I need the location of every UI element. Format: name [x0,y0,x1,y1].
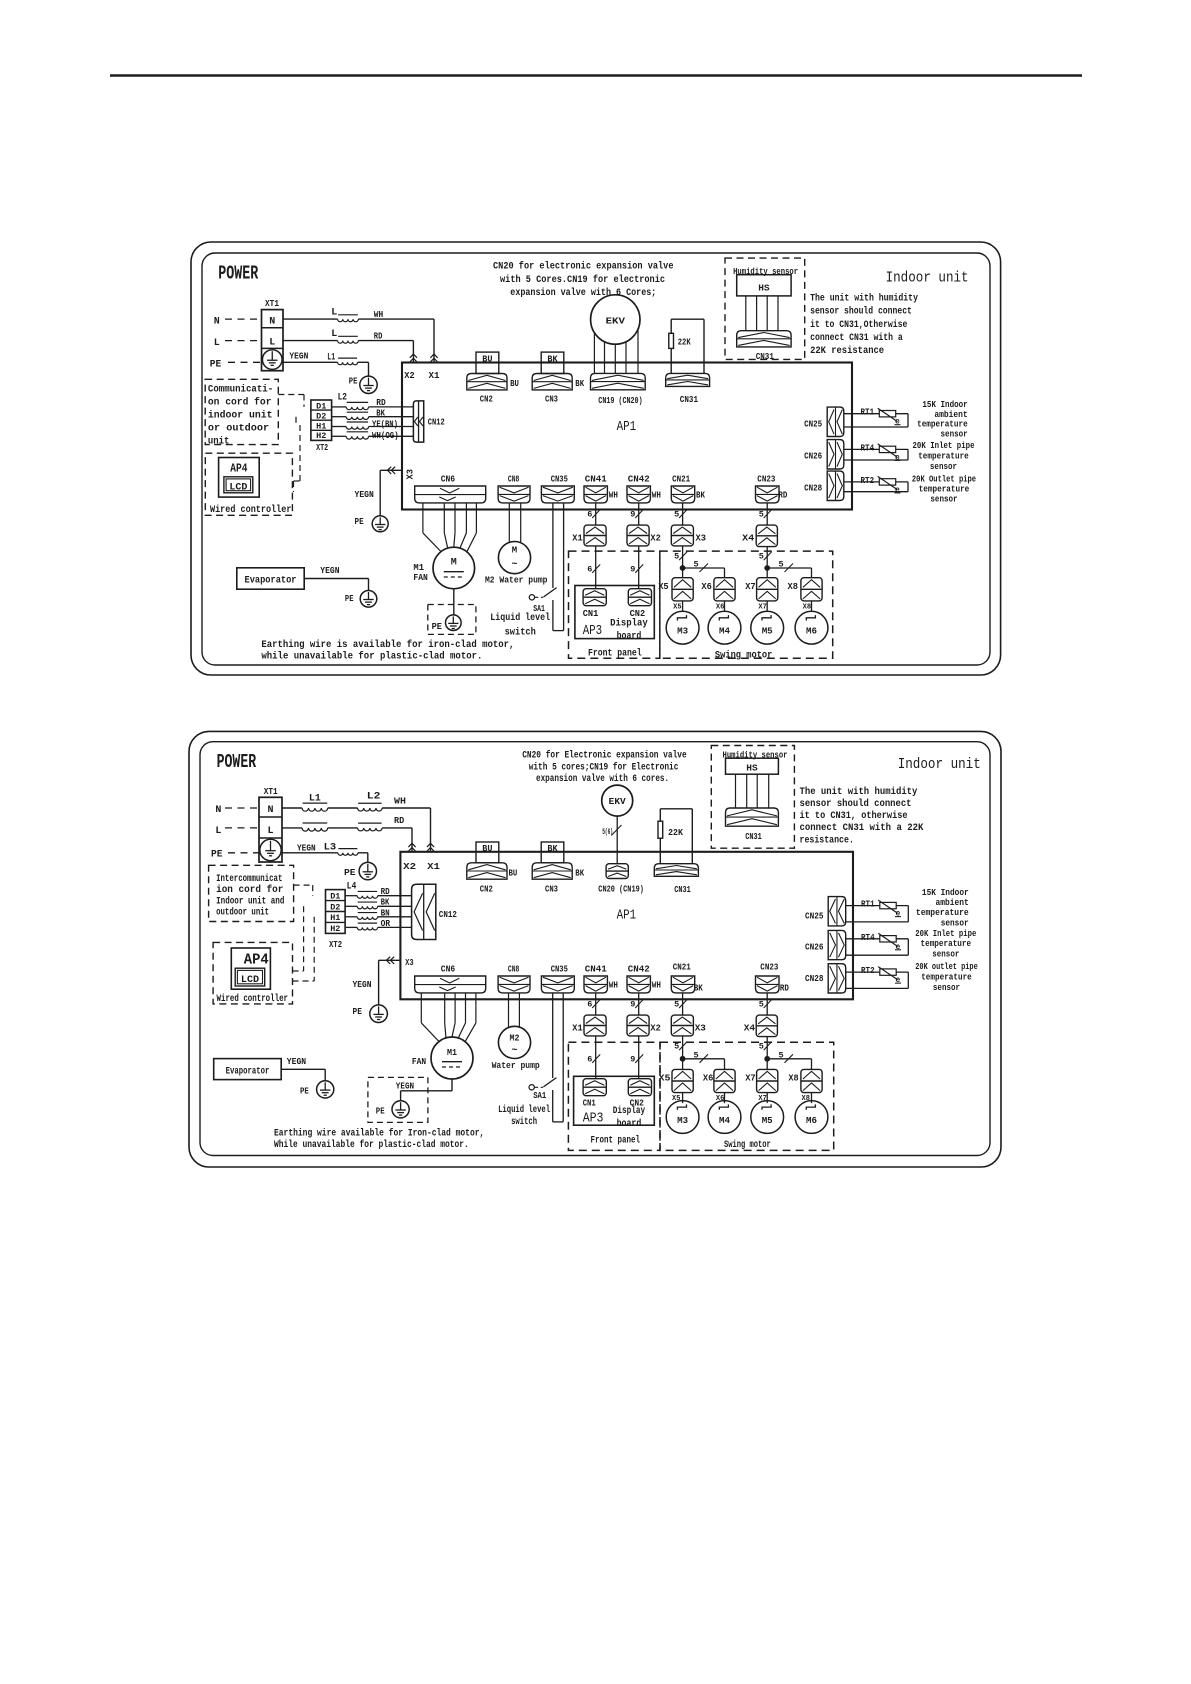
svg-text:e: e [896,976,901,985]
svg-text:6: 6 [587,1000,592,1010]
svg-text:XT1: XT1 [264,786,278,797]
svg-text:RD: RD [376,398,386,408]
svg-text:5: 5 [694,1050,699,1060]
svg-text:sensor should connect: sensor should connect [810,306,912,318]
svg-text:with 5 Cores.CN19 for electron: with 5 Cores.CN19 for electronic [500,274,665,286]
svg-text:Indoor unit: Indoor unit [886,270,969,287]
svg-text:WH: WH [394,796,406,807]
svg-text:L2: L2 [338,393,347,404]
svg-text:while unavailable for plastic-: while unavailable for plastic-clad motor… [261,651,482,663]
svg-text:M3: M3 [677,626,688,637]
svg-text:M3: M3 [677,1115,688,1126]
svg-text:CN1: CN1 [583,1098,596,1109]
svg-text:L: L [214,338,220,349]
svg-text:PE: PE [211,850,223,861]
svg-text:H2: H2 [316,431,326,441]
svg-text:Evaporator: Evaporator [245,575,297,587]
svg-text:e: e [895,486,900,495]
svg-text:CN2: CN2 [480,884,493,895]
svg-text:BK: BK [547,353,557,364]
svg-text:X8: X8 [803,603,812,611]
svg-text:22K resistance: 22K resistance [810,345,884,357]
svg-text:The unit with humidity: The unit with humidity [810,293,918,305]
svg-text:X3: X3 [696,533,707,544]
svg-text:RT1: RT1 [861,899,875,910]
svg-text:PE: PE [300,1085,309,1096]
svg-text:X5: X5 [658,581,669,592]
svg-text:X2: X2 [650,1023,661,1034]
svg-text:HS: HS [746,762,758,773]
svg-text:Indoor unit and: Indoor unit and [216,895,284,907]
svg-text:CN31: CN31 [756,351,774,362]
svg-text:D1: D1 [316,402,326,412]
svg-text:CN41: CN41 [585,963,607,974]
svg-text:Indoor unit: Indoor unit [898,756,981,773]
svg-text:X4: X4 [742,533,754,544]
svg-text:OR: OR [381,919,391,929]
svg-text:CN8: CN8 [508,473,520,484]
svg-text:CN12: CN12 [439,909,457,920]
svg-text:AP1: AP1 [617,419,637,435]
svg-text:YEGN: YEGN [320,565,339,576]
svg-text:switch: switch [505,626,536,638]
svg-text:POWER: POWER [217,751,257,773]
svg-text:YEGN: YEGN [355,489,375,500]
svg-text:BN: BN [381,908,390,918]
svg-text:N: N [215,805,221,816]
svg-text:BK: BK [575,868,584,879]
svg-text:switch: switch [511,1116,537,1128]
svg-text:6: 6 [587,510,592,520]
svg-text:e: e [896,943,901,952]
svg-text:FAN: FAN [412,1056,426,1067]
svg-text:L4: L4 [347,882,357,893]
svg-text:5: 5 [759,1000,764,1010]
svg-text:PE: PE [353,1006,363,1017]
svg-text:Liquid level: Liquid level [490,612,550,624]
svg-text:5: 5 [779,1050,784,1060]
svg-text:CN26: CN26 [804,451,822,462]
svg-text:Intercommunicat: Intercommunicat [216,873,282,885]
svg-text:ion cord for: ion cord for [216,884,283,896]
svg-text:M1: M1 [447,1047,457,1058]
svg-text:XT2: XT2 [316,442,328,453]
svg-text:CN42: CN42 [628,473,650,484]
svg-text:CN1: CN1 [583,608,599,619]
svg-text:X3: X3 [405,957,414,968]
svg-text:22K: 22K [678,336,691,347]
svg-text:e: e [895,418,900,427]
svg-text:X1: X1 [572,1023,583,1034]
svg-text:RD: RD [778,489,787,500]
svg-text:CN25: CN25 [804,418,822,429]
svg-text:X5: X5 [673,603,682,611]
svg-text:9: 9 [630,1000,635,1010]
svg-text:5: 5 [759,510,764,520]
svg-text:resistance.: resistance. [800,834,854,846]
svg-text:WH: WH [652,979,661,990]
svg-text:X5: X5 [672,1095,680,1103]
svg-text:9: 9 [630,1054,635,1064]
svg-text:RD: RD [381,887,391,897]
svg-text:BU: BU [482,843,492,854]
svg-text:X5: X5 [659,1073,671,1084]
svg-text:CN6: CN6 [441,473,456,484]
svg-text:5: 5 [674,1000,679,1010]
svg-text:RT1: RT1 [861,407,875,418]
svg-text:L2: L2 [367,792,381,803]
svg-text:5: 5 [779,560,784,570]
svg-text:L1: L1 [309,793,321,804]
svg-text:9: 9 [630,564,635,574]
svg-text:20K outlet pipe: 20K outlet pipe [915,961,978,972]
svg-text:BK: BK [381,898,390,908]
svg-text:XT2: XT2 [329,939,342,950]
svg-text:Display: Display [613,1105,646,1117]
svg-text:X7: X7 [745,1073,756,1084]
svg-text:CN21: CN21 [672,473,690,484]
svg-text:YEGN: YEGN [287,1056,307,1067]
svg-text:Humidity sensor: Humidity sensor [733,267,798,277]
svg-text:N: N [214,317,220,328]
svg-text:it to CN31,Otherwise: it to CN31,Otherwise [810,319,907,331]
svg-text:X6: X6 [701,581,712,592]
svg-text:CN28: CN28 [804,482,822,493]
svg-text:BU: BU [482,353,492,364]
svg-text:Evaporator: Evaporator [226,1066,270,1078]
svg-text:H1: H1 [316,421,326,431]
svg-text:~: ~ [511,560,517,571]
svg-text:or outdoor: or outdoor [208,423,269,435]
svg-text:expansion valve with 6 Cores;: expansion valve with 6 Cores; [510,287,656,299]
svg-text:N: N [269,317,275,328]
svg-text:X7: X7 [745,581,756,592]
svg-text:PE: PE [376,1106,385,1117]
svg-text:AP3: AP3 [583,623,603,639]
svg-text:D1: D1 [330,892,340,902]
svg-text:RD: RD [780,983,789,994]
svg-text:X2: X2 [403,861,416,872]
svg-text:sensor: sensor [930,494,957,505]
svg-text:L3: L3 [324,843,337,854]
svg-text:CN12: CN12 [428,417,445,428]
svg-text:WH(OG): WH(OG) [372,431,399,441]
svg-text:D2: D2 [330,902,340,912]
svg-text:L: L [269,338,275,349]
svg-text:X8: X8 [802,1095,810,1103]
svg-text:sensor should connect: sensor should connect [800,798,912,810]
svg-text:FAN: FAN [413,572,428,583]
svg-text:with 5 cores;CN19 for Electron: with 5 cores;CN19 for Electronic [529,762,679,774]
svg-text:BK: BK [547,843,557,854]
svg-text:X1: X1 [429,370,440,381]
svg-text:connect CN31 with a: connect CN31 with a [810,332,903,344]
svg-text:BK: BK [575,378,584,389]
svg-text:CN8: CN8 [508,963,520,974]
svg-text:X1: X1 [427,861,440,872]
svg-text:Liquid level: Liquid level [498,1104,550,1116]
svg-text:BU: BU [510,378,519,389]
svg-text:The unit with humidity: The unit with humidity [800,786,918,798]
svg-text:sensor: sensor [930,461,957,472]
svg-text:CN21: CN21 [673,962,691,973]
svg-text:CN35: CN35 [551,473,568,484]
svg-text:20K Inlet pipe: 20K Inlet pipe [913,440,975,451]
svg-text:CN41: CN41 [585,473,607,484]
svg-text:Communicati-: Communicati- [208,384,273,396]
svg-text:CN3: CN3 [545,394,558,405]
svg-text:M6: M6 [806,626,817,637]
svg-text:RT4: RT4 [861,932,875,943]
svg-text:X6: X6 [703,1073,714,1084]
svg-text:H1: H1 [330,913,340,923]
svg-text:WH: WH [609,489,618,500]
svg-text:PE: PE [345,593,354,604]
svg-text:5: 5 [694,560,699,570]
svg-text:RD: RD [374,331,383,342]
svg-text:M5: M5 [762,626,773,637]
svg-text:e: e [895,453,900,462]
svg-text:CN42: CN42 [628,963,650,974]
svg-text:temperature: temperature [921,971,972,982]
svg-text:5: 5 [759,1042,764,1052]
svg-text:BK: BK [376,409,385,419]
svg-text:L: L [267,826,273,837]
svg-text:M5: M5 [762,1115,773,1126]
svg-text:temperature: temperature [918,450,969,461]
svg-text:on cord for: on cord for [208,397,272,409]
svg-text:YEGN: YEGN [297,843,316,854]
svg-text:sensor: sensor [941,429,968,440]
svg-text:CN28: CN28 [805,973,824,984]
svg-text:EKV: EKV [606,315,626,326]
svg-text:CN25: CN25 [805,911,824,922]
svg-text:unit: unit [208,436,230,448]
svg-text:M: M [451,557,457,568]
svg-text:Display: Display [610,617,648,629]
svg-text:Front panel: Front panel [588,648,642,660]
svg-text:~: ~ [511,1046,517,1057]
svg-text:L: L [215,826,221,837]
svg-text:sensor: sensor [941,917,969,928]
svg-text:CN35: CN35 [551,963,568,974]
svg-text:X6: X6 [716,603,725,611]
svg-text:outdoor unit: outdoor unit [216,907,269,919]
svg-text:6: 6 [587,1054,592,1064]
svg-text:HS: HS [758,282,770,293]
svg-text:PE: PE [432,621,443,632]
svg-text:CN20 for Electronic expansion: CN20 for Electronic expansion valve [522,750,687,762]
svg-text:Swing motor: Swing motor [715,650,773,662]
svg-text:M4: M4 [719,1115,730,1126]
svg-text:5: 5 [674,510,679,520]
svg-text:CN26: CN26 [805,941,824,952]
svg-text:Earthing wire available for Ir: Earthing wire available for Iron-clad mo… [274,1128,484,1140]
svg-text:PE: PE [355,516,364,527]
svg-text:D2: D2 [316,411,326,421]
svg-text:9: 9 [630,510,635,520]
svg-text:X6: X6 [716,1095,724,1103]
svg-text:RT4: RT4 [861,442,875,453]
svg-text:XT1: XT1 [265,298,279,309]
svg-text:Wired controller: Wired controller [217,993,289,1005]
svg-text:WH: WH [374,309,384,320]
svg-text:Earthing wire is available for: Earthing wire is available for iron-clad… [261,639,514,651]
svg-text:PE: PE [344,867,356,878]
svg-text:EKV: EKV [609,797,627,807]
svg-text:CN31: CN31 [674,884,691,895]
svg-text:board: board [617,630,642,642]
svg-text:6: 6 [587,564,592,574]
svg-text:M6: M6 [806,1115,817,1126]
svg-text:5: 5 [674,552,679,562]
svg-text:RD: RD [394,815,404,826]
svg-text:X8: X8 [788,1073,799,1084]
svg-text:BU: BU [509,868,518,879]
svg-text:board: board [617,1118,642,1130]
svg-text:X8: X8 [788,581,799,592]
svg-text:X3: X3 [695,1023,706,1034]
svg-text:connect CN31 with a 22K: connect CN31 with a 22K [800,822,924,834]
svg-text:sensor: sensor [932,948,959,959]
svg-text:M2: M2 [510,1033,520,1043]
svg-text:5(6): 5(6) [602,828,613,837]
svg-text:PE: PE [210,360,222,371]
svg-text:N: N [267,805,273,816]
svg-text:22K: 22K [668,827,683,838]
svg-text:X7: X7 [758,603,767,611]
svg-text:PE: PE [349,375,358,386]
svg-text:H2: H2 [330,924,340,934]
svg-text:X2: X2 [404,370,415,381]
svg-text:5: 5 [759,552,764,562]
svg-text:BK: BK [694,983,703,994]
svg-text:M: M [512,545,517,555]
svg-text:CN31: CN31 [745,831,762,842]
svg-text:X7: X7 [758,1095,766,1103]
svg-text:CN20 (CN19): CN20 (CN19) [598,883,644,894]
svg-text:M4: M4 [719,626,730,637]
svg-text:CN6: CN6 [441,963,456,974]
svg-text:AP4: AP4 [230,462,247,475]
svg-text:X2: X2 [650,533,661,544]
svg-text:YE(BN): YE(BN) [372,420,398,430]
svg-text:POWER: POWER [218,263,258,285]
svg-text:Water pump: Water pump [492,1060,540,1071]
svg-text:indoor unit: indoor unit [208,410,273,422]
svg-text:L: L [331,308,337,319]
svg-text:CN23: CN23 [757,473,775,484]
svg-text:CN31: CN31 [680,394,698,405]
svg-text:expansion valve with 6 cores.: expansion valve with 6 cores. [536,773,669,785]
svg-text:While unavailable for plastic-: While unavailable for plastic-clad motor… [274,1139,469,1151]
svg-text:RT2: RT2 [861,965,875,976]
svg-text:YEGN: YEGN [353,979,372,990]
svg-text:WH: WH [609,979,618,990]
svg-text:it to CN31, otherwise: it to CN31, otherwise [800,810,908,822]
svg-text:AP3: AP3 [583,1111,604,1127]
svg-text:Front panel: Front panel [591,1134,641,1146]
svg-text:LCD: LCD [241,975,259,986]
svg-text:CN19 (CN20): CN19 (CN20) [598,395,642,406]
svg-text:CN3: CN3 [545,884,558,895]
svg-text:CN23: CN23 [760,962,778,973]
svg-text:e: e [896,910,901,919]
svg-text:CN20 for electronic expansion: CN20 for electronic expansion valve [493,260,674,272]
svg-text:YEGN: YEGN [289,350,308,361]
svg-text:SA1: SA1 [533,1090,546,1101]
svg-text:sensor: sensor [933,982,960,993]
svg-text:YEGN: YEGN [396,1080,415,1091]
svg-text:AP1: AP1 [617,908,637,924]
svg-text:RT2: RT2 [861,475,875,486]
svg-text:X1: X1 [572,533,583,544]
svg-text:Humidity sensor: Humidity sensor [723,750,788,760]
svg-text:Swing motor: Swing motor [724,1139,771,1151]
svg-text:CN2: CN2 [480,394,493,405]
svg-text:L1: L1 [327,352,335,363]
svg-text:X3: X3 [405,469,416,480]
svg-text:Wired controller: Wired controller [210,504,291,516]
svg-text:X4: X4 [744,1023,756,1034]
svg-text:5: 5 [674,1042,679,1052]
svg-text:BK: BK [696,489,705,500]
svg-text:M2 Water pump: M2 Water pump [485,574,548,585]
svg-text:WH: WH [652,489,661,500]
svg-text:AP4: AP4 [244,951,269,968]
svg-text:L: L [331,329,337,340]
svg-text:LCD: LCD [229,483,247,494]
